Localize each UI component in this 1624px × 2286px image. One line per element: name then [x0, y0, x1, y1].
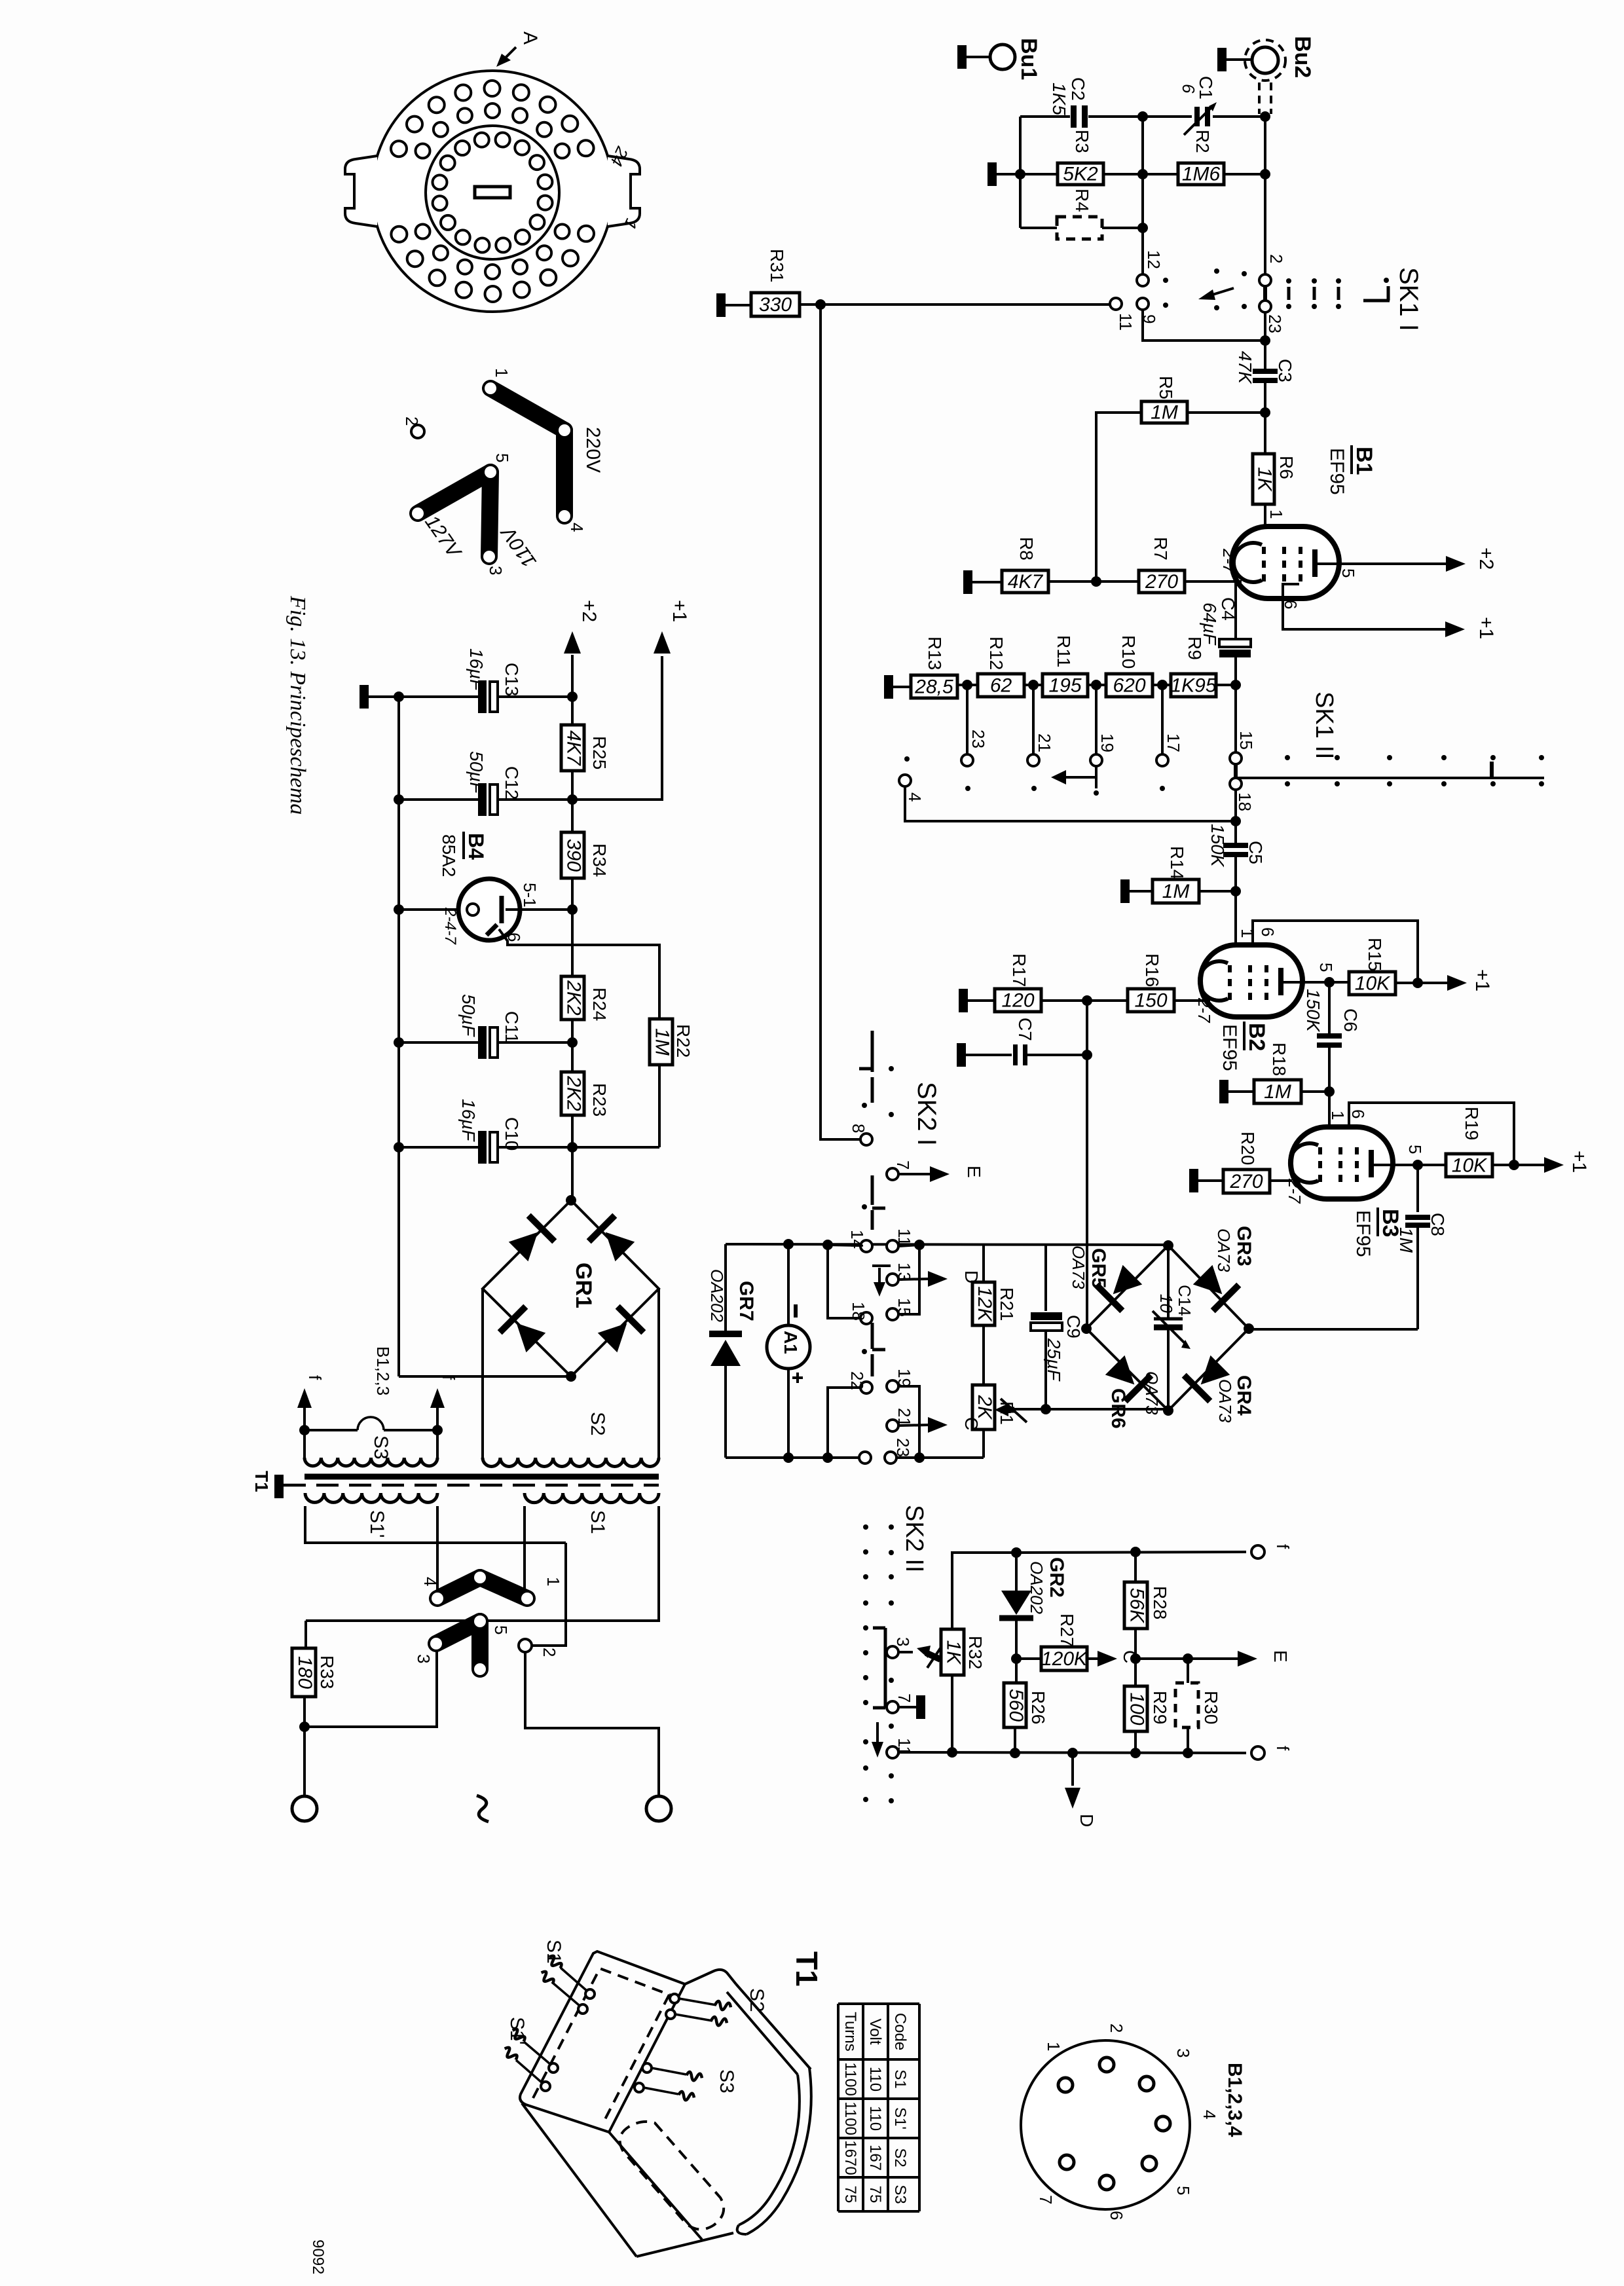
resistor R6: [1253, 413, 1297, 528]
transformer T1 core: [284, 1477, 659, 1485]
signal arrow D (SK2I): [928, 1270, 982, 1287]
resistor R30 (dashed): [1175, 1659, 1221, 1753]
wire R18 node to B3 pin1: [1328, 1092, 1331, 1130]
svg-text:+2: +2: [578, 600, 600, 622]
svg-text:OA73: OA73: [1069, 1245, 1088, 1289]
wire S1 right to apex line: [306, 1506, 659, 1621]
resistor R4 (dashed): [1020, 189, 1143, 239]
capacitor C7: [957, 1018, 1084, 1067]
svg-text:100: 100: [1126, 1692, 1148, 1725]
svg-text:S1': S1': [891, 2107, 909, 2129]
svg-text:f: f: [305, 1375, 325, 1380]
svg-text:+1: +1: [669, 600, 690, 622]
svg-text:R9: R9: [1185, 636, 1205, 660]
wire B2 anode to R15: [1281, 981, 1349, 984]
switch SK2 I contact 18: [849, 1302, 872, 1324]
node junction R14/B2 grid: [1230, 886, 1241, 896]
switch SK2 I contact 13: [887, 1263, 914, 1285]
svg-text:C2: C2: [1068, 77, 1088, 101]
svg-text:270: 270: [1145, 571, 1178, 593]
svg-text:R22: R22: [673, 1024, 693, 1058]
wire apex line to R33: [304, 1621, 307, 1648]
svg-text:28,5: 28,5: [914, 676, 953, 698]
switch SK1 II wiper arrow: [1051, 766, 1096, 788]
node junction meter top: [783, 1239, 794, 1249]
diode GR1 top-left: [509, 1232, 538, 1262]
capacitor C10 16uF: [399, 1099, 571, 1164]
wafer arrow A: [496, 31, 541, 67]
svg-text:11: 11: [1116, 313, 1135, 331]
svg-text:5: 5: [1405, 1145, 1425, 1154]
svg-text:C6: C6: [1340, 1008, 1361, 1032]
node junction R33/mains: [299, 1722, 310, 1732]
svg-text:21: 21: [1035, 733, 1054, 752]
svg-text:GR5: GR5: [1088, 1248, 1109, 1289]
wire left ground rail: [397, 697, 400, 1376]
wire B3 anode to R19: [1371, 1164, 1446, 1166]
wire E line: [1135, 1657, 1238, 1660]
signal arrow E (SK2II): [1238, 1650, 1291, 1667]
switch SK2 I contact 22: [847, 1371, 872, 1393]
svg-text:R4: R4: [1072, 189, 1092, 212]
svg-text:110: 110: [866, 2067, 884, 2092]
wire meter top line: [726, 1244, 1167, 1245]
svg-text:16µF: 16µF: [458, 1099, 479, 1142]
svg-text:S2: S2: [746, 1988, 767, 2012]
svg-text:EF95: EF95: [1352, 1210, 1374, 1257]
voltage selector bar 5-x-3: [412, 466, 496, 562]
svg-text:18: 18: [849, 1302, 868, 1321]
node junction R3/R2: [1015, 169, 1025, 179]
svg-text:R32: R32: [965, 1636, 986, 1669]
switch SK2 II contact 11: [887, 1738, 914, 1758]
node junction C7: [1082, 1050, 1092, 1060]
node junction f right: [432, 1425, 443, 1435]
svg-text:B2: B2: [1244, 1023, 1269, 1051]
svg-text:560: 560: [1005, 1689, 1027, 1722]
svg-text:R25: R25: [589, 736, 610, 769]
svg-text:R18: R18: [1269, 1042, 1289, 1076]
winding S2: [483, 1412, 659, 1466]
svg-text:1: 1: [1266, 509, 1286, 519]
wire contact 2 to mains right: [525, 1651, 659, 1796]
node junction R28 top: [1130, 1547, 1141, 1557]
svg-text:23: 23: [1265, 314, 1285, 333]
svg-text:16µF: 16µF: [466, 648, 487, 691]
resistor R3: [987, 130, 1178, 186]
svg-text:7: 7: [1036, 2195, 1056, 2204]
wire GR1 left vertex to S2: [481, 1289, 484, 1458]
node GR1 top vertex: [566, 1195, 576, 1206]
node junction R24/R23: [567, 1037, 578, 1048]
node junction left rail/C12: [394, 794, 404, 805]
trimmer capacitor C1: [1179, 76, 1217, 135]
svg-text:R10: R10: [1118, 635, 1139, 669]
svg-text:5: 5: [1338, 568, 1358, 578]
svg-text:f: f: [439, 1375, 458, 1380]
switch SK2 I contact 7: [887, 1160, 913, 1180]
svg-text:3: 3: [893, 1637, 913, 1646]
resistor R8: [963, 537, 1139, 594]
svg-text:S1: S1: [543, 1940, 564, 1964]
node junction 19-loop bottom: [914, 1452, 925, 1463]
node junction R5/R6: [1260, 407, 1270, 418]
svg-text:10K: 10K: [1355, 973, 1391, 995]
svg-text:4K7: 4K7: [563, 730, 585, 766]
svg-text:R14: R14: [1167, 846, 1187, 879]
svg-text:75: 75: [841, 2186, 859, 2203]
svg-text:6: 6: [1258, 927, 1278, 936]
switch SK1 I contact 12: [1137, 250, 1164, 286]
node bridge top vertex: [1163, 1240, 1173, 1251]
svg-text:R24: R24: [589, 987, 610, 1021]
svg-text:390: 390: [563, 839, 585, 872]
wire measuring bridge frame: [1086, 1245, 1249, 1410]
T1 sketch S3 pins: [635, 2063, 737, 2101]
heater arrow f (right): [430, 1375, 458, 1458]
svg-text:Turns: Turns: [841, 2012, 859, 2051]
selector contact 2: [519, 1639, 532, 1652]
svg-text:2K2: 2K2: [563, 1075, 585, 1111]
voltage selector bar 3-5: [430, 1615, 486, 1675]
node junction R32 bottom: [947, 1747, 957, 1758]
signal arrow E (SK2I): [930, 1166, 984, 1182]
svg-text:S3: S3: [716, 2069, 737, 2093]
wire 11 link: [898, 1245, 919, 1246]
switch SK1 II wafer line: [1237, 755, 1544, 786]
svg-text:C4: C4: [1218, 597, 1238, 621]
svg-text:C7: C7: [1015, 1018, 1035, 1041]
svg-text:C12: C12: [502, 766, 522, 800]
wire R31 to contact 11: [826, 303, 1109, 306]
node junction R30 top: [1183, 1653, 1193, 1664]
svg-text:1100: 1100: [841, 2062, 859, 2096]
wire line to contact 2: [532, 1543, 566, 1646]
tube socket B1,2,3,4 drawing: [1021, 2040, 1190, 2209]
svg-text:4: 4: [420, 1577, 440, 1586]
svg-text:+1: +1: [1568, 1151, 1590, 1173]
resistor R12: [978, 636, 1043, 697]
switch SK2 I contact 8: [849, 1124, 872, 1145]
power arrow +1 (B1 screen): [1445, 617, 1497, 639]
svg-text:GR2: GR2: [1046, 1557, 1067, 1598]
wire B1 anode to +2: [1315, 562, 1449, 565]
switch SK2 II contact 7: [887, 1693, 914, 1713]
svg-text:B1,2,3,4: B1,2,3,4: [1224, 2063, 1246, 2137]
svg-text:1: 1: [1238, 929, 1257, 938]
tube B4 85A2: [458, 879, 520, 940]
wire C4 node to contact 15: [1234, 685, 1237, 752]
svg-text:85A2: 85A2: [439, 834, 459, 877]
diode GR1 top-right: [606, 1232, 635, 1262]
node junction R31: [815, 299, 826, 310]
svg-text:6: 6: [1179, 84, 1198, 94]
svg-text:50µF: 50µF: [466, 751, 487, 794]
wire R13 node to contact 23: [966, 685, 969, 754]
node bridge left vertex: [1081, 1323, 1092, 1334]
svg-text:1: 1: [1044, 2042, 1063, 2051]
svg-text:180: 180: [294, 1656, 316, 1689]
svg-text:2-7: 2-7: [1285, 1178, 1304, 1204]
wire S1p left to line: [305, 1506, 566, 1543]
svg-text:6: 6: [1107, 2211, 1126, 2220]
node junction 22-loop bottom: [822, 1452, 833, 1463]
resistor R2: [1178, 130, 1265, 185]
resistor R14: [1120, 846, 1236, 903]
label mains ~: [477, 1796, 489, 1822]
svg-text:R26: R26: [1028, 1691, 1048, 1724]
svg-text:R17: R17: [1009, 953, 1029, 987]
T1 sketch S1 pins: [538, 1940, 595, 2014]
wire R12 node to contact 21: [1032, 685, 1035, 754]
wire S1p right to terminal 4: [436, 1506, 439, 1594]
node junction R2 right: [1260, 169, 1270, 179]
wire R10 node to contact 17: [1161, 685, 1164, 754]
svg-text:6: 6: [1348, 1109, 1368, 1118]
svg-text:R15: R15: [1365, 938, 1385, 971]
svg-text:R29: R29: [1150, 1691, 1170, 1724]
svg-text:4: 4: [567, 523, 587, 532]
svg-text:GR3: GR3: [1233, 1226, 1255, 1266]
label B4: [439, 832, 488, 877]
svg-text:SK2 II: SK2 II: [900, 1505, 928, 1573]
svg-text:Bu1: Bu1: [1016, 38, 1041, 80]
wire 14-18 loop: [828, 1245, 860, 1318]
svg-text:R5: R5: [1156, 376, 1176, 399]
svg-text:SK1 I: SK1 I: [1394, 267, 1423, 331]
svg-text:C11: C11: [502, 1011, 522, 1043]
signal arrow C (SK2II): [1098, 1650, 1140, 1667]
signal arrow C (SK2I): [928, 1417, 982, 1433]
svg-text:Code: Code: [891, 2013, 909, 2050]
wire 23 to C3: [1264, 312, 1266, 371]
svg-text:R23: R23: [589, 1083, 610, 1116]
T1 sketch S2 pins: [666, 1988, 767, 2027]
svg-text:4: 4: [905, 792, 925, 802]
tube B1 EF95: [1232, 526, 1339, 599]
node junction GR2/R27/R26: [1011, 1653, 1022, 1664]
svg-text:1M: 1M: [652, 1028, 673, 1056]
switch SK2 I wiper arrow: [872, 1266, 891, 1297]
svg-text:A1: A1: [781, 1331, 801, 1354]
svg-text:5-1: 5-1: [520, 883, 540, 908]
svg-text:S2: S2: [587, 1412, 608, 1436]
heater terminal f (top): [1251, 1544, 1293, 1558]
wire R1 bottom to SK2I: [982, 1429, 985, 1458]
capacitor C11 50uF: [399, 994, 571, 1059]
label B3: [1352, 1208, 1403, 1257]
svg-text:R12: R12: [986, 636, 1006, 670]
capacitor C12 50uF: [399, 751, 571, 816]
svg-text:62: 62: [990, 675, 1012, 697]
winding S1: [525, 1493, 659, 1534]
node junction f left: [299, 1425, 310, 1435]
wire C3 to R5 node: [1264, 380, 1266, 413]
svg-text:GR4: GR4: [1233, 1375, 1255, 1416]
node junction R4: [1137, 223, 1148, 233]
capacitor C2: [1049, 77, 1088, 128]
switch SK1 II contact 15: [1230, 731, 1256, 764]
wire contact 9 to node 23: [1143, 310, 1263, 341]
svg-text:11: 11: [895, 1228, 914, 1246]
resistor R16: [1128, 953, 1210, 1012]
resistor R33: [292, 1648, 337, 1697]
wire bottom row right: [896, 1456, 984, 1459]
svg-text:3: 3: [414, 1654, 434, 1663]
svg-text:5: 5: [492, 453, 512, 462]
wire R1 wiper to bridge bottom: [1014, 1408, 1167, 1410]
wire GR1 bridge frame: [483, 1200, 659, 1376]
svg-text:S1: S1: [891, 2069, 909, 2088]
svg-text:19: 19: [1098, 733, 1117, 752]
svg-text:S1': S1': [506, 2017, 528, 2044]
svg-text:D: D: [961, 1270, 982, 1283]
wire 11-15 loop: [898, 1245, 919, 1314]
resistor R7: [1139, 537, 1242, 593]
svg-text:B1,2,3: B1,2,3: [373, 1346, 393, 1395]
wire contact 18 down: [1234, 790, 1237, 843]
trimmer capacitor C14: [1153, 1245, 1194, 1410]
node junction Bu2 input: [1260, 111, 1270, 122]
switch SK1 II contact 18: [1230, 778, 1255, 811]
wafer switch drawing: [345, 71, 640, 312]
node junction R3 mid: [1137, 169, 1148, 179]
switch SK1 II link 15-18: [1234, 764, 1238, 779]
resistor R5: [1096, 376, 1265, 581]
wire B3 screen to R19 node: [1349, 1103, 1514, 1162]
T1 sketch S1p pins: [502, 2017, 558, 2091]
node junction C2/R3 top: [1137, 111, 1148, 122]
svg-text:1K: 1K: [943, 1640, 965, 1666]
tube B3 EF95: [1291, 1127, 1393, 1199]
wire contact 21 to C arrow: [898, 1425, 929, 1426]
switch SK1 I contact 23: [1259, 301, 1285, 333]
svg-text:R21: R21: [997, 1287, 1017, 1321]
node junction left rail/C10: [394, 1142, 404, 1152]
wire B4 pin6 to R22: [499, 929, 659, 1019]
node junction R23/R22/C10: [567, 1142, 578, 1152]
signal arrow D (SK2II): [1065, 1748, 1097, 1827]
svg-text:B1: B1: [1352, 447, 1376, 475]
svg-text:23: 23: [969, 729, 988, 748]
svg-text:10K: 10K: [1452, 1155, 1488, 1177]
power arrow +2 (B1 anode): [1446, 547, 1497, 572]
wire R32 top to GR2 line: [952, 1553, 1016, 1629]
svg-text:50µF: 50µF: [458, 994, 479, 1037]
wire R16 node down to bridge left: [1086, 1001, 1088, 1327]
svg-text:110: 110: [866, 2106, 884, 2131]
wire SK2II bottom rail: [898, 1752, 1246, 1753]
svg-text:+1: +1: [1471, 969, 1493, 991]
wire heater link with hump: [304, 1417, 437, 1430]
resistor R31: [716, 249, 826, 317]
svg-text:GR7: GR7: [735, 1281, 757, 1321]
voltage selector bar 1-mid-4: [485, 382, 570, 522]
svg-text:A: A: [519, 31, 541, 45]
switch SK1 II contact 21: [1027, 733, 1054, 766]
svg-text:2: 2: [1266, 254, 1286, 263]
svg-text:D: D: [1077, 1814, 1097, 1827]
resistor R34: [561, 800, 610, 907]
svg-text:Fig. 13. Principeschema: Fig. 13. Principeschema: [286, 595, 310, 815]
node GR1 bottom vertex: [566, 1371, 576, 1382]
diode GR7 OA202: [707, 1244, 757, 1458]
wire 14 link: [828, 1245, 860, 1245]
svg-text:47K: 47K: [1235, 351, 1255, 384]
resistor R26: [1004, 1659, 1048, 1753]
svg-text:OA202: OA202: [1027, 1561, 1046, 1614]
svg-text:EF95: EF95: [1219, 1024, 1240, 1071]
wire Bu2 down to SK1I-2: [1264, 117, 1266, 276]
wire 22 loop to bottom: [828, 1388, 860, 1458]
svg-text:C14: C14: [1175, 1285, 1194, 1316]
node junction C3/R5 tap: [1260, 335, 1270, 346]
switch SK1 II contact 19: [1090, 733, 1117, 766]
svg-text:18: 18: [1235, 792, 1255, 811]
svg-text:R16: R16: [1142, 953, 1162, 987]
resistor R21: [972, 1245, 1017, 1385]
resistor R15: [1349, 938, 1449, 995]
switch SK1 II contact 17: [1156, 733, 1183, 766]
svg-text:S2: S2: [891, 2148, 909, 2167]
svg-text:R3: R3: [1072, 130, 1092, 153]
capacitor C8: [1396, 1165, 1448, 1329]
svg-text:S1: S1: [587, 1510, 608, 1534]
wire contact 4 bus: [905, 786, 1234, 821]
switch SK2 II dot columns: [863, 1524, 894, 1803]
svg-text:17: 17: [1164, 733, 1183, 752]
voltage selector bar 4-1: [432, 1572, 533, 1604]
svg-text:1670: 1670: [841, 2140, 859, 2175]
switch SK1 I position dots: [1163, 268, 1247, 310]
switch SK2 II contact 3: [887, 1637, 913, 1658]
svg-text:1M: 1M: [1396, 1227, 1416, 1253]
mains terminal left: [292, 1796, 317, 1821]
node junction R30 bottom: [1183, 1748, 1193, 1758]
svg-text:E: E: [1270, 1650, 1291, 1663]
ground SK2 II contact 7: [898, 1695, 925, 1719]
svg-text:R2: R2: [1192, 130, 1213, 153]
svg-text:75: 75: [866, 2186, 884, 2203]
potentiometer R1 2K: [972, 1385, 1027, 1429]
wire B4 anode to R34: [506, 908, 571, 911]
svg-text:R20: R20: [1238, 1132, 1258, 1165]
node junction R29 bottom: [1130, 1748, 1141, 1758]
svg-text:+1: +1: [1475, 617, 1497, 639]
svg-text:195: 195: [1048, 675, 1081, 697]
wire R31 bus down to SK2I-8: [821, 304, 860, 1139]
node junction +1 tap: [567, 794, 578, 805]
wire contact 13 to D arrow: [898, 1279, 929, 1280]
potentiometer R32 1K: [898, 1629, 986, 1675]
power arrow +1 (R19): [1544, 1151, 1590, 1173]
svg-text:120: 120: [1001, 990, 1034, 1012]
svg-text:S1': S1': [366, 1510, 388, 1538]
svg-text:SK1 II: SK1 II: [1310, 691, 1338, 760]
wire R14 node to B2 pin1: [1234, 891, 1237, 948]
wire B1 screen to +1: [1283, 584, 1448, 629]
switch SK2 I contact 21: [887, 1408, 914, 1431]
wire top input net: [1020, 117, 1265, 228]
svg-text:56K: 56K: [1126, 1588, 1148, 1624]
svg-text:620: 620: [1113, 675, 1145, 697]
resistor R23: [561, 1042, 610, 1146]
svg-text:Volt: Volt: [866, 2018, 884, 2044]
svg-text:15: 15: [895, 1298, 914, 1317]
node junction SK2I-14 top: [822, 1240, 833, 1250]
svg-text:1M: 1M: [1162, 881, 1190, 902]
node junction B2 anode/C6: [1324, 977, 1335, 987]
